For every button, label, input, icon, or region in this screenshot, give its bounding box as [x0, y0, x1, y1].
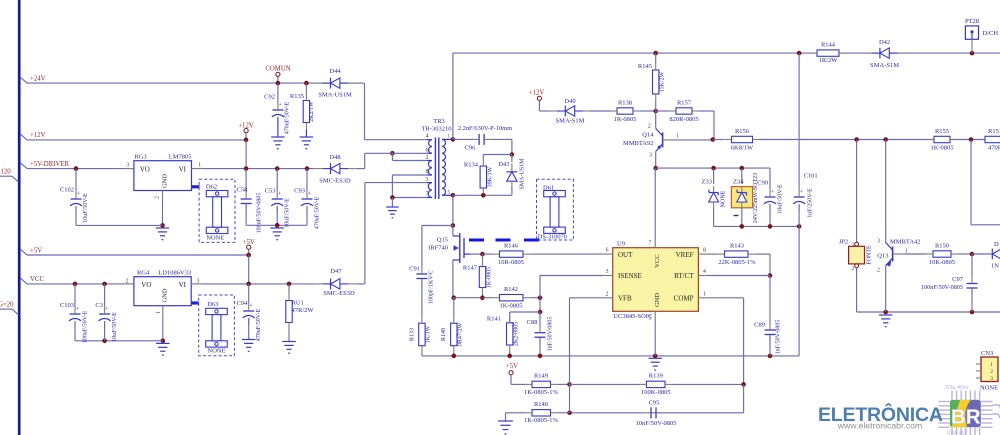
- svg-text:NONE: NONE: [980, 385, 998, 392]
- svg-text:10K-0805: 10K-0805: [929, 259, 955, 266]
- svg-text:+: +: [105, 306, 109, 313]
- svg-text:Q13: Q13: [877, 252, 888, 259]
- svg-text:034 4U/: 034 4U/: [947, 431, 968, 435]
- svg-text:NONE: NONE: [208, 348, 226, 355]
- svg-text:1: 1: [990, 362, 993, 368]
- svg-text:R134: R134: [464, 161, 479, 168]
- svg-text:R149: R149: [534, 373, 548, 380]
- svg-text:8: 8: [703, 248, 706, 254]
- svg-text:1nF/50V-0805: 1nF/50V-0805: [548, 317, 554, 352]
- svg-text:R146: R146: [504, 242, 519, 249]
- svg-text:VI: VI: [179, 165, 187, 173]
- svg-text:2.2nF/630V-P-10mm: 2.2nF/630V-P-10mm: [458, 125, 512, 132]
- svg-text:COMUN: COMUN: [265, 66, 290, 73]
- svg-text:1K-0805: 1K-0805: [930, 144, 953, 151]
- svg-text:47R/2W: 47R/2W: [292, 307, 315, 314]
- svg-text:VCC: VCC: [654, 254, 661, 267]
- svg-text:R151: R151: [988, 128, 1000, 135]
- svg-text:+5V-DRIVER: +5V-DRIVER: [30, 161, 70, 168]
- svg-text:470uF/50V-E: 470uF/50V-E: [314, 196, 320, 229]
- svg-text:SMA-S1M: SMA-S1M: [556, 118, 585, 125]
- svg-text:SMA-US1M: SMA-US1M: [520, 158, 526, 190]
- svg-text:R142: R142: [504, 286, 518, 293]
- svg-text:Q14: Q14: [642, 132, 654, 139]
- svg-text:UC3845-SOIC: UC3845-SOIC: [613, 313, 652, 320]
- svg-text:TR-303210: TR-303210: [422, 125, 452, 132]
- svg-text:470uF/50V-E: 470uF/50V-E: [285, 101, 291, 134]
- svg-text:6: 6: [426, 148, 429, 154]
- svg-text:8: 8: [426, 169, 429, 175]
- svg-text:D42: D42: [879, 39, 890, 46]
- svg-text:D63: D63: [207, 301, 218, 308]
- svg-text:100uF/50V-E: 100uF/50V-E: [83, 310, 89, 343]
- svg-text:3: 3: [126, 163, 129, 169]
- svg-text:R139: R139: [649, 373, 663, 380]
- svg-text:2: 2: [426, 155, 429, 161]
- svg-text:C91: C91: [409, 265, 420, 272]
- svg-text:+5V: +5V: [30, 247, 42, 254]
- svg-text:1: 1: [156, 311, 162, 314]
- svg-text:R155: R155: [935, 128, 949, 135]
- svg-text:+: +: [75, 306, 79, 313]
- svg-text:VREF: VREF: [676, 251, 694, 259]
- svg-text:GND: GND: [162, 174, 169, 188]
- svg-text:C97: C97: [952, 276, 964, 283]
- svg-text:SMC-ES3D: SMC-ES3D: [319, 177, 351, 184]
- svg-text:NONE: NONE: [721, 190, 727, 207]
- svg-text:CN3: CN3: [981, 350, 993, 357]
- svg-text:+: +: [799, 189, 803, 196]
- svg-text:1K-0805: 1K-0805: [487, 267, 493, 288]
- svg-text:SMC-ES3D: SMC-ES3D: [323, 290, 355, 297]
- svg-text:MMBTA92: MMBTA92: [623, 140, 654, 147]
- svg-text:C88: C88: [527, 319, 538, 326]
- svg-text:R157: R157: [677, 99, 692, 106]
- svg-text:10nF/50V-0805: 10nF/50V-0805: [636, 420, 677, 427]
- svg-text:C94: C94: [237, 300, 249, 307]
- svg-text:2: 2: [154, 196, 160, 199]
- svg-text:+5V: +5V: [506, 363, 518, 370]
- svg-text:C101: C101: [804, 173, 818, 180]
- svg-text:DS-310070: DS-310070: [538, 234, 567, 241]
- svg-text:FONTE: FONTE: [867, 245, 873, 265]
- svg-text:5: 5: [648, 316, 651, 322]
- svg-text:1R-0805: 1R-0805: [614, 116, 637, 123]
- svg-text:D61: D61: [543, 184, 554, 191]
- svg-text:470uF/50V-E: 470uF/50V-E: [256, 308, 262, 341]
- svg-text:10uF/50V-E: 10uF/50V-E: [83, 193, 89, 223]
- svg-text:10uF/50V-E: 10uF/50V-E: [112, 312, 118, 342]
- svg-text:39K/1W: 39K/1W: [488, 166, 494, 187]
- svg-text:4: 4: [426, 134, 429, 140]
- svg-text:VO: VO: [141, 281, 151, 289]
- svg-text:2: 2: [606, 291, 609, 297]
- svg-text:2: 2: [126, 278, 129, 284]
- svg-text:2: 2: [990, 369, 993, 375]
- svg-text:R143: R143: [730, 242, 744, 249]
- svg-text:RU1: RU1: [292, 300, 304, 307]
- svg-text:D43: D43: [498, 161, 509, 168]
- svg-text:4: 4: [703, 269, 706, 275]
- svg-text:1: 1: [676, 134, 679, 140]
- svg-text:R144: R144: [821, 41, 836, 48]
- svg-text:3: 3: [649, 153, 652, 159]
- svg-text:100nF/50V-0805: 100nF/50V-0805: [257, 193, 263, 234]
- svg-text:MMBTA42: MMBTA42: [890, 239, 921, 246]
- svg-text:D: D: [994, 241, 999, 248]
- svg-text:120: 120: [1, 169, 12, 176]
- svg-text:3: 3: [606, 269, 609, 275]
- svg-text:D47: D47: [330, 268, 342, 275]
- svg-text:C96: C96: [465, 144, 477, 151]
- svg-text:470R: 470R: [988, 144, 1000, 151]
- svg-text:RG4: RG4: [137, 269, 150, 276]
- svg-text:LM7805: LM7805: [169, 153, 192, 160]
- svg-text:VFB: VFB: [618, 295, 632, 303]
- svg-text:1K-0805: 1K-0805: [499, 303, 522, 310]
- svg-text:+: +: [249, 303, 253, 310]
- svg-text:GND: GND: [162, 288, 169, 302]
- svg-text:LD1086V33: LD1086V33: [158, 269, 191, 276]
- svg-text:RG3: RG3: [134, 153, 146, 160]
- svg-text:Z34: Z34: [733, 179, 744, 186]
- svg-text:C92: C92: [264, 94, 275, 101]
- svg-text:100K-0805: 100K-0805: [641, 389, 671, 396]
- svg-text:+: +: [307, 191, 311, 198]
- svg-text:3: 3: [426, 177, 429, 183]
- svg-text:R148: R148: [441, 328, 447, 341]
- svg-text:3: 3: [990, 376, 993, 382]
- svg-text:C95: C95: [649, 399, 660, 406]
- svg-text:BR: BR: [951, 406, 981, 429]
- svg-text::03a 40er: :03a 40er: [944, 385, 969, 391]
- svg-text:RT/CT: RT/CT: [674, 272, 694, 280]
- svg-text:+12V: +12V: [238, 123, 254, 130]
- svg-text:1uF/250V-E: 1uF/250V-E: [808, 188, 814, 218]
- svg-text:15K/2W: 15K/2W: [660, 71, 666, 92]
- svg-text:D48: D48: [329, 154, 340, 161]
- svg-text:COMP: COMP: [674, 295, 694, 303]
- svg-text:+: +: [278, 102, 282, 109]
- svg-text:1: 1: [198, 163, 201, 169]
- svg-text:10R-0805: 10R-0805: [498, 259, 524, 266]
- svg-text:SMA-US1M: SMA-US1M: [318, 92, 352, 99]
- svg-text:R150: R150: [935, 242, 949, 249]
- svg-text:1K/1W: 1K/1W: [426, 325, 432, 343]
- svg-text:6K8/1W: 6K8/1W: [731, 145, 754, 152]
- svg-text:1K-0805-1%: 1K-0805-1%: [524, 389, 559, 396]
- svg-text:C3: C3: [95, 302, 103, 309]
- svg-text:www.eletronicabr.com: www.eletronicabr.com: [837, 421, 923, 431]
- svg-text:GND: GND: [654, 293, 661, 307]
- svg-text:PT28: PT28: [965, 18, 979, 25]
- svg-text:7: 7: [648, 240, 651, 246]
- svg-text:1nF/50V-0805: 1nF/50V-0805: [776, 320, 782, 355]
- svg-text:+: +: [76, 191, 80, 198]
- svg-text:2K2/1W: 2K2/1W: [309, 101, 315, 122]
- svg-text:R140: R140: [534, 401, 548, 408]
- svg-text:D/CH: D/CH: [983, 30, 999, 37]
- svg-text:2: 2: [648, 123, 651, 129]
- svg-text:0R47/2W: 0R47/2W: [458, 323, 464, 347]
- svg-text:VI: VI: [179, 281, 187, 289]
- svg-text:1: 1: [448, 134, 451, 140]
- svg-text:1R/2W: 1R/2W: [819, 57, 839, 64]
- svg-text:R156: R156: [735, 128, 750, 135]
- svg-text:JP2: JP2: [839, 239, 848, 246]
- svg-text:+12V: +12V: [529, 90, 545, 97]
- svg-text:R145: R145: [638, 63, 652, 70]
- svg-text:D62: D62: [206, 184, 217, 191]
- svg-text:R133: R133: [409, 328, 415, 341]
- svg-text:3: 3: [877, 238, 880, 244]
- svg-text:10uF/50V-E: 10uF/50V-E: [778, 184, 784, 214]
- svg-text:Q15: Q15: [437, 237, 448, 244]
- svg-text:1K-0805-1%: 1K-0805-1%: [524, 417, 559, 424]
- svg-text:SMA-S1M: SMA-S1M: [870, 62, 899, 69]
- svg-text:D49: D49: [564, 98, 575, 105]
- svg-text:100nF/50V-0805: 100nF/50V-0805: [921, 284, 963, 291]
- svg-text:1: 1: [703, 291, 706, 297]
- svg-text:TR3: TR3: [433, 118, 445, 125]
- svg-text:1N: 1N: [991, 263, 999, 270]
- svg-text:G=20: G=20: [0, 302, 14, 309]
- svg-text:C103: C103: [60, 302, 74, 309]
- svg-text:820R-0805: 820R-0805: [669, 116, 698, 123]
- svg-text:+24V: +24V: [30, 76, 46, 83]
- svg-text:10uF/50V-E: 10uF/50V-E: [285, 198, 291, 228]
- svg-text:R138: R138: [618, 99, 632, 106]
- svg-text:6: 6: [606, 248, 609, 254]
- svg-text:R141: R141: [487, 316, 501, 323]
- svg-text:100pF/1KV-C: 100pF/1KV-C: [429, 270, 435, 304]
- svg-text:C53: C53: [265, 188, 276, 195]
- svg-text:+5V: +5V: [243, 239, 255, 246]
- svg-text:U9: U9: [617, 240, 625, 247]
- svg-text:R147: R147: [463, 265, 478, 272]
- svg-text:C90: C90: [757, 179, 768, 186]
- svg-text:IRF740: IRF740: [428, 245, 448, 252]
- svg-text:C102: C102: [60, 187, 74, 194]
- svg-text:VCC: VCC: [30, 276, 44, 283]
- svg-text:+12V: +12V: [30, 132, 46, 139]
- svg-text:+: +: [770, 189, 774, 196]
- svg-text:+: +: [278, 191, 282, 198]
- svg-text:VO: VO: [140, 165, 150, 173]
- svg-text:Z33: Z33: [702, 179, 712, 186]
- svg-text:D44: D44: [329, 68, 341, 75]
- svg-text:5: 5: [448, 189, 451, 195]
- svg-text:2K2-0805: 2K2-0805: [514, 322, 520, 346]
- svg-text:ISENSE: ISENSE: [618, 272, 642, 280]
- svg-text:7: 7: [426, 192, 429, 198]
- svg-text:NONE: NONE: [206, 234, 224, 241]
- svg-text:OUT: OUT: [618, 251, 633, 259]
- svg-text:22K-0805-1%: 22K-0805-1%: [718, 259, 756, 266]
- svg-text:2: 2: [877, 268, 880, 274]
- svg-text:R135: R135: [290, 93, 304, 100]
- svg-text:C58: C58: [237, 187, 248, 194]
- svg-text:C93: C93: [294, 188, 305, 195]
- svg-text:C89: C89: [754, 322, 765, 329]
